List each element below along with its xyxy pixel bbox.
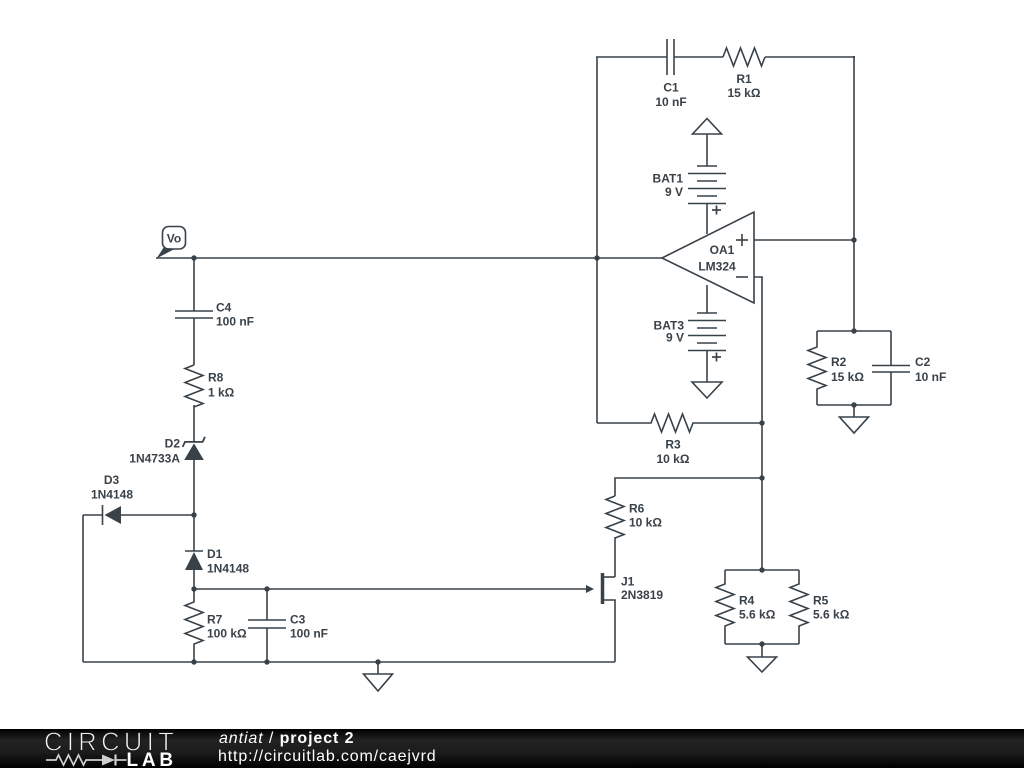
- svg-text:R8: R8: [208, 371, 224, 385]
- power flag above BAT1: [693, 119, 722, 167]
- wire R4/R5 top: [725, 569, 799, 571]
- wire R8 to D2: [193, 405, 195, 442]
- svg-text:1N4148: 1N4148: [91, 488, 133, 502]
- svg-text:10 nF: 10 nF: [915, 370, 946, 384]
- svg-text:10 kΩ: 10 kΩ: [629, 516, 662, 530]
- resistor R3 with leads: [597, 414, 763, 432]
- junction at C3 bottom: [264, 659, 269, 664]
- ground below R4/R5: [748, 644, 777, 672]
- svg-text:10 kΩ: 10 kΩ: [657, 452, 690, 466]
- svg-text:5.6 kΩ: 5.6 kΩ: [739, 608, 776, 622]
- ground below R2/C2: [840, 405, 869, 433]
- junction at Vo node: [191, 255, 196, 260]
- svg-text:1N4733A: 1N4733A: [129, 452, 180, 466]
- junction at + input and right rail: [851, 237, 856, 242]
- resistor R2 with leads: [808, 331, 826, 405]
- CircuitLab logo: [0, 729, 190, 768]
- wire R2/C2 top: [817, 330, 891, 332]
- junction at C3 top: [264, 586, 269, 591]
- junction at R3 right: [759, 420, 764, 425]
- svg-text:LAB: LAB: [127, 750, 177, 768]
- J1 gate arrowhead: [586, 585, 594, 593]
- junction below D1: [191, 586, 196, 591]
- resistor R5 with leads: [790, 570, 808, 644]
- svg-text:15 kΩ: 15 kΩ: [831, 370, 864, 384]
- wire left rail (output node vertical): [596, 57, 598, 423]
- resistor R6: [606, 496, 624, 538]
- op-amp - input symbol: [736, 276, 748, 278]
- wire bottom rail: [83, 661, 615, 663]
- svg-text:OA1: OA1: [710, 243, 735, 257]
- svg-text:1N4148: 1N4148: [207, 562, 249, 576]
- logo diode lead: [116, 759, 127, 761]
- junction at D3 anode node: [191, 512, 196, 517]
- svg-text:R5: R5: [813, 594, 829, 608]
- capacitor C4: [175, 311, 213, 365]
- junction at bottom ground: [375, 659, 380, 664]
- svg-text:C2: C2: [915, 355, 931, 369]
- wire J1 gate: [194, 588, 587, 590]
- battery BAT1: [688, 166, 726, 234]
- svg-text:BAT1: BAT1: [653, 172, 684, 186]
- wire R1 to right rail: [765, 56, 855, 58]
- svg-text:100 nF: 100 nF: [216, 315, 254, 329]
- svg-text:C4: C4: [216, 301, 232, 315]
- svg-text:R1: R1: [736, 72, 752, 86]
- capacitor C1: [667, 39, 674, 75]
- wire R6 to J1 drain: [614, 537, 616, 577]
- svg-text:100 nF: 100 nF: [290, 627, 328, 641]
- ground below BAT3: [692, 382, 722, 398]
- svg-text:R6: R6: [629, 502, 645, 516]
- junction at R4/R5 top: [759, 567, 764, 572]
- svg-text:2N3819: 2N3819: [621, 588, 663, 602]
- logo resistor zigzag: [46, 755, 102, 765]
- svg-text:R7: R7: [207, 613, 223, 627]
- junction at R2/C2 top: [851, 328, 856, 333]
- svg-text:9 V: 9 V: [665, 185, 683, 199]
- ground bottom: [364, 662, 393, 691]
- footer project title: [219, 730, 354, 748]
- svg-text:C1: C1: [663, 81, 679, 95]
- svg-text:15 kΩ: 15 kΩ: [728, 86, 761, 100]
- svg-text:10 nF: 10 nF: [655, 95, 686, 109]
- wire Vo branch down: [193, 258, 195, 311]
- battery BAT3: [688, 285, 726, 382]
- resistor R8: [185, 365, 203, 407]
- junction at R7 bottom: [191, 659, 196, 664]
- wire right rail: [853, 56, 855, 331]
- svg-text:R4: R4: [739, 594, 755, 608]
- diode D3 (points left): [83, 505, 194, 525]
- junction at R4/R5 bottom: [759, 641, 764, 646]
- transistor J1 (n-JFET): [603, 573, 616, 662]
- svg-text:Vo: Vo: [167, 232, 181, 246]
- svg-text:R3: R3: [665, 438, 681, 452]
- wire R6 branch: [615, 478, 762, 496]
- node flag Vo: [157, 227, 186, 259]
- footer url: [218, 748, 437, 766]
- resistor R1: [723, 48, 765, 66]
- resistor R7 with leads: [185, 589, 203, 662]
- wire R2/C2 bottom: [817, 404, 891, 406]
- wire C1 to R1: [674, 56, 723, 58]
- wire op-amp - input down to R3 node: [754, 277, 762, 570]
- footer bar: [0, 729, 1024, 768]
- op-amp U1 triangle: [662, 212, 754, 303]
- svg-text:5.6 kΩ: 5.6 kΩ: [813, 608, 850, 622]
- svg-text:1 kΩ: 1 kΩ: [208, 386, 235, 400]
- svg-text:J1: J1: [621, 575, 635, 589]
- logo diode triangle: [102, 755, 115, 766]
- wire top left segment: [596, 56, 667, 58]
- capacitor C3 with leads: [248, 589, 286, 662]
- svg-text:9 V: 9 V: [666, 331, 684, 345]
- junction at output node and left rail: [594, 255, 599, 260]
- resistor R4 with leads: [716, 570, 734, 644]
- capacitor C2 with leads: [872, 331, 910, 405]
- svg-text:D2: D2: [165, 437, 181, 451]
- junction at R6 branch: [759, 475, 764, 480]
- wire op-amp + input to right rail: [754, 239, 854, 241]
- svg-text:D1: D1: [207, 547, 223, 561]
- svg-text:R2: R2: [831, 355, 847, 369]
- svg-text:LM324: LM324: [698, 260, 736, 274]
- svg-text:C3: C3: [290, 613, 306, 627]
- svg-text:D3: D3: [104, 473, 120, 487]
- junction at R2/C2 bottom: [851, 402, 856, 407]
- wire left rail D3 down: [82, 515, 84, 662]
- diode D1: [185, 551, 203, 589]
- logo diode bar: [114, 755, 116, 766]
- op-amp + input symbol: [736, 234, 748, 246]
- diode D2 (zener): [183, 437, 205, 515]
- wire R4/R5 bottom: [725, 643, 799, 645]
- svg-text:100 kΩ: 100 kΩ: [207, 627, 247, 641]
- wire output node horizontal: [156, 257, 662, 259]
- wire D3 node to D1: [193, 515, 195, 551]
